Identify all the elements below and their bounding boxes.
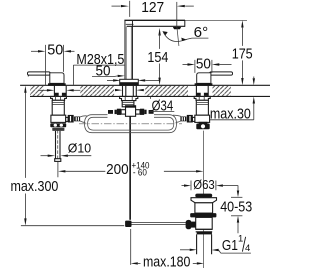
max.180 left extension	[130, 229, 132, 265]
spout arm bottom edge	[127, 25, 185, 27]
M28 witness arrow left	[38, 89, 47, 91]
left valve flange nut below deck	[51, 96, 67, 100]
svg-text:4: 4	[245, 243, 250, 254]
svg-text:Ø63: Ø63	[193, 177, 215, 192]
right valve compression nut	[187, 115, 193, 123]
svg-text:40-53: 40-53	[220, 199, 252, 216]
deck bottom line	[30, 95, 270, 97]
svg-text:max.180: max.180	[143, 254, 191, 270]
right valve flange nut	[194, 96, 210, 100]
Ø34 witness arrow right	[138, 79, 145, 81]
spout base escutcheon	[120, 79, 139, 85]
left valve outlet port stem	[66, 117, 68, 121]
max.300 dimension line	[24, 93, 26, 219]
tee right arm tip	[144, 110, 146, 114]
drain locknut	[190, 213, 216, 217]
Ø34 leader	[149, 96, 151, 99]
drain flange	[191, 198, 217, 203]
drain centerline from valve	[203, 131, 205, 268]
pipe end flare	[55, 159, 61, 162]
left supply pipe Ø10	[56, 131, 61, 159]
max.30 up arrow below deck	[253, 97, 255, 104]
svg-text:max.300: max.300	[10, 178, 58, 195]
center witness arrow right	[136, 89, 143, 91]
center shank walls in deck	[123, 86, 137, 96]
left valve shank in deck	[54, 86, 66, 96]
175 extension line along spout top	[185, 19, 247, 21]
left handle body	[50, 73, 64, 84]
Ø63 dimension	[182, 185, 185, 187]
M28 witness arrow right	[74, 89, 81, 91]
Ø34 witness arrow left	[107, 79, 113, 81]
right valve body	[196, 100, 208, 115]
tee top cap	[125, 105, 135, 107]
154 dimension	[158, 28, 160, 36]
svg-text:G1: G1	[222, 237, 238, 254]
center witness arrow left	[115, 89, 122, 91]
hose loop inner	[88, 117, 174, 130]
left valve port tip (ridged hose end)	[74, 117, 80, 122]
left valve hex nut	[50, 123, 66, 127]
right valve shank in deck	[196, 86, 208, 96]
spout arm top edge	[124, 19, 185, 21]
left valve thread corner marks	[54, 93, 66, 96]
countertop deck hatched band	[30, 86, 44, 96]
svg-text:- 60: - 60	[133, 168, 147, 179]
svg-text:Ø34: Ø34	[152, 98, 174, 115]
max.180 dimension	[131, 262, 138, 264]
tee left arm tip	[115, 110, 117, 114]
tee left arm stem	[121, 110, 125, 114]
left valve lower housing	[51, 115, 66, 122]
svg-text:50: 50	[196, 55, 211, 72]
50 right handle dimension	[183, 64, 188, 66]
pop-up rod vertical	[129, 117, 131, 220]
hose loop outer	[85, 115, 177, 133]
spout arm joint line	[126, 23, 134, 25]
127 dimension	[112, 5, 121, 7]
tee right arm nut	[140, 109, 144, 115]
right handle lever	[210, 72, 233, 75]
right valve port tip (ridged hose end)	[180, 117, 186, 122]
svg-text:127: 127	[141, 0, 164, 16]
max.30 down arrow	[253, 78, 255, 85]
svg-text:154: 154	[147, 49, 168, 66]
175 dimension	[241, 20, 243, 27]
drain body bottom lines	[196, 229, 213, 232]
svg-text:1: 1	[238, 234, 243, 245]
6 degree water angle line	[177, 27, 179, 46]
right valve port stem	[192, 117, 194, 121]
right valve lower housing	[195, 115, 210, 122]
max.300 down arrow at bottom line	[24, 218, 26, 225]
svg-text:50: 50	[47, 42, 63, 59]
center body	[122, 101, 134, 107]
drain lower body	[196, 217, 213, 229]
left valve body	[52, 100, 64, 115]
hose dash-dot centerline	[79, 123, 182, 125]
G1 1/4 annotation	[180, 249, 190, 251]
40-53 dimension	[237, 186, 239, 191]
drain upper body	[195, 203, 213, 213]
center column left wall	[125, 21, 133, 80]
pipe extension line	[57, 162, 59, 178]
hose fitting right	[149, 110, 154, 114]
drain lever neck	[192, 222, 196, 228]
Ø10 annotation arrows	[41, 155, 49, 157]
right valve hex nut	[196, 124, 209, 130]
50 left handle dimension	[31, 50, 38, 52]
spout end edge	[184, 20, 186, 27]
drain lever ball	[186, 220, 192, 229]
tee left arm nut	[117, 109, 121, 115]
horizontal pop-up rod	[132, 223, 187, 225]
left handle base escutcheon	[48, 83, 66, 86]
drain plug head	[195, 194, 212, 198]
200 dimension line	[58, 170, 65, 172]
center flange nut below deck	[120, 96, 138, 100]
rod elbow joint	[125, 221, 131, 227]
svg-text:Ø10: Ø10	[68, 141, 91, 156]
left valve lower nut ring	[52, 128, 64, 131]
bottom reference line	[21, 225, 124, 227]
left valve compression nut	[68, 115, 74, 123]
6 degree arc	[163, 32, 185, 41]
max.300 up arrow at deck	[24, 86, 26, 93]
right valve thread corner marks	[196, 93, 208, 96]
tee right arm stem	[136, 110, 140, 114]
aerator block at spout tip	[173, 27, 181, 29]
right handle base escutcheon	[195, 83, 213, 86]
hose connector from left valve	[80, 116, 87, 123]
svg-text:200: 200	[106, 161, 129, 178]
M28x1,5 leader	[72, 65, 74, 85]
hose connector from right valve	[173, 115, 181, 122]
deck top surface line	[20, 84, 270, 86]
tailpipe walls	[197, 234, 212, 254]
center column inner lines	[126, 27, 131, 80]
right handle body	[197, 73, 211, 84]
tailpipe nut band	[197, 232, 212, 235]
svg-text:175: 175	[232, 46, 253, 63]
tee body	[126, 106, 136, 117]
right valve neck	[199, 122, 208, 124]
left handle lever	[28, 72, 51, 75]
hose fitting left	[108, 110, 113, 114]
pipe dashed centerline	[57, 130, 59, 162]
